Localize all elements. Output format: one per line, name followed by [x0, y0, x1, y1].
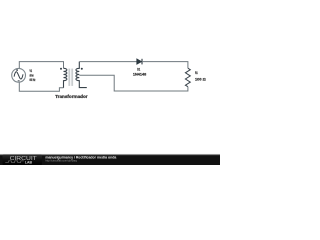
svg-text:http://circuitlab.com/c/pr5arg: http://circuitlab.com/c/pr5arg [45, 159, 77, 163]
transformer secondary coil [76, 62, 87, 88]
svg-text:60 Hz: 60 Hz [30, 77, 36, 82]
svg-text:LAB: LAB [25, 161, 33, 165]
svg-text:R1: R1 [195, 70, 198, 75]
V1 minus sign [18, 80, 20, 82]
secondary phase dot [81, 68, 83, 70]
svg-text:1N4148: 1N4148 [133, 72, 147, 77]
footer logo box [3, 155, 43, 165]
primary phase dot [60, 68, 62, 70]
transformer primary coil [64, 68, 67, 87]
diode D1 cathode bar [141, 59, 143, 65]
voltage source V1 circle [12, 68, 26, 82]
svg-text:100 Ω: 100 Ω [195, 76, 206, 81]
transformer core bar 1 [68, 69, 70, 86]
V1 plus sign [16, 69, 18, 71]
wire: source bottom to transformer primary [19, 82, 63, 91]
wire: secondary top to diode anode [79, 61, 137, 63]
logo square wave [5, 161, 24, 163]
footer bar [0, 154, 220, 165]
V1 sine squiggle [14, 72, 23, 79]
diode D1 triangle [137, 59, 142, 65]
wire: diode cathode to resistor top [142, 62, 188, 69]
wire: resistor bottom return to secondary tap [79, 75, 188, 91]
transformer core bar 2 [71, 69, 73, 86]
wire: source top to transformer primary [19, 62, 63, 69]
svg-text:Transformador: Transformador [55, 94, 88, 99]
resistor R1 zigzag [185, 68, 190, 87]
